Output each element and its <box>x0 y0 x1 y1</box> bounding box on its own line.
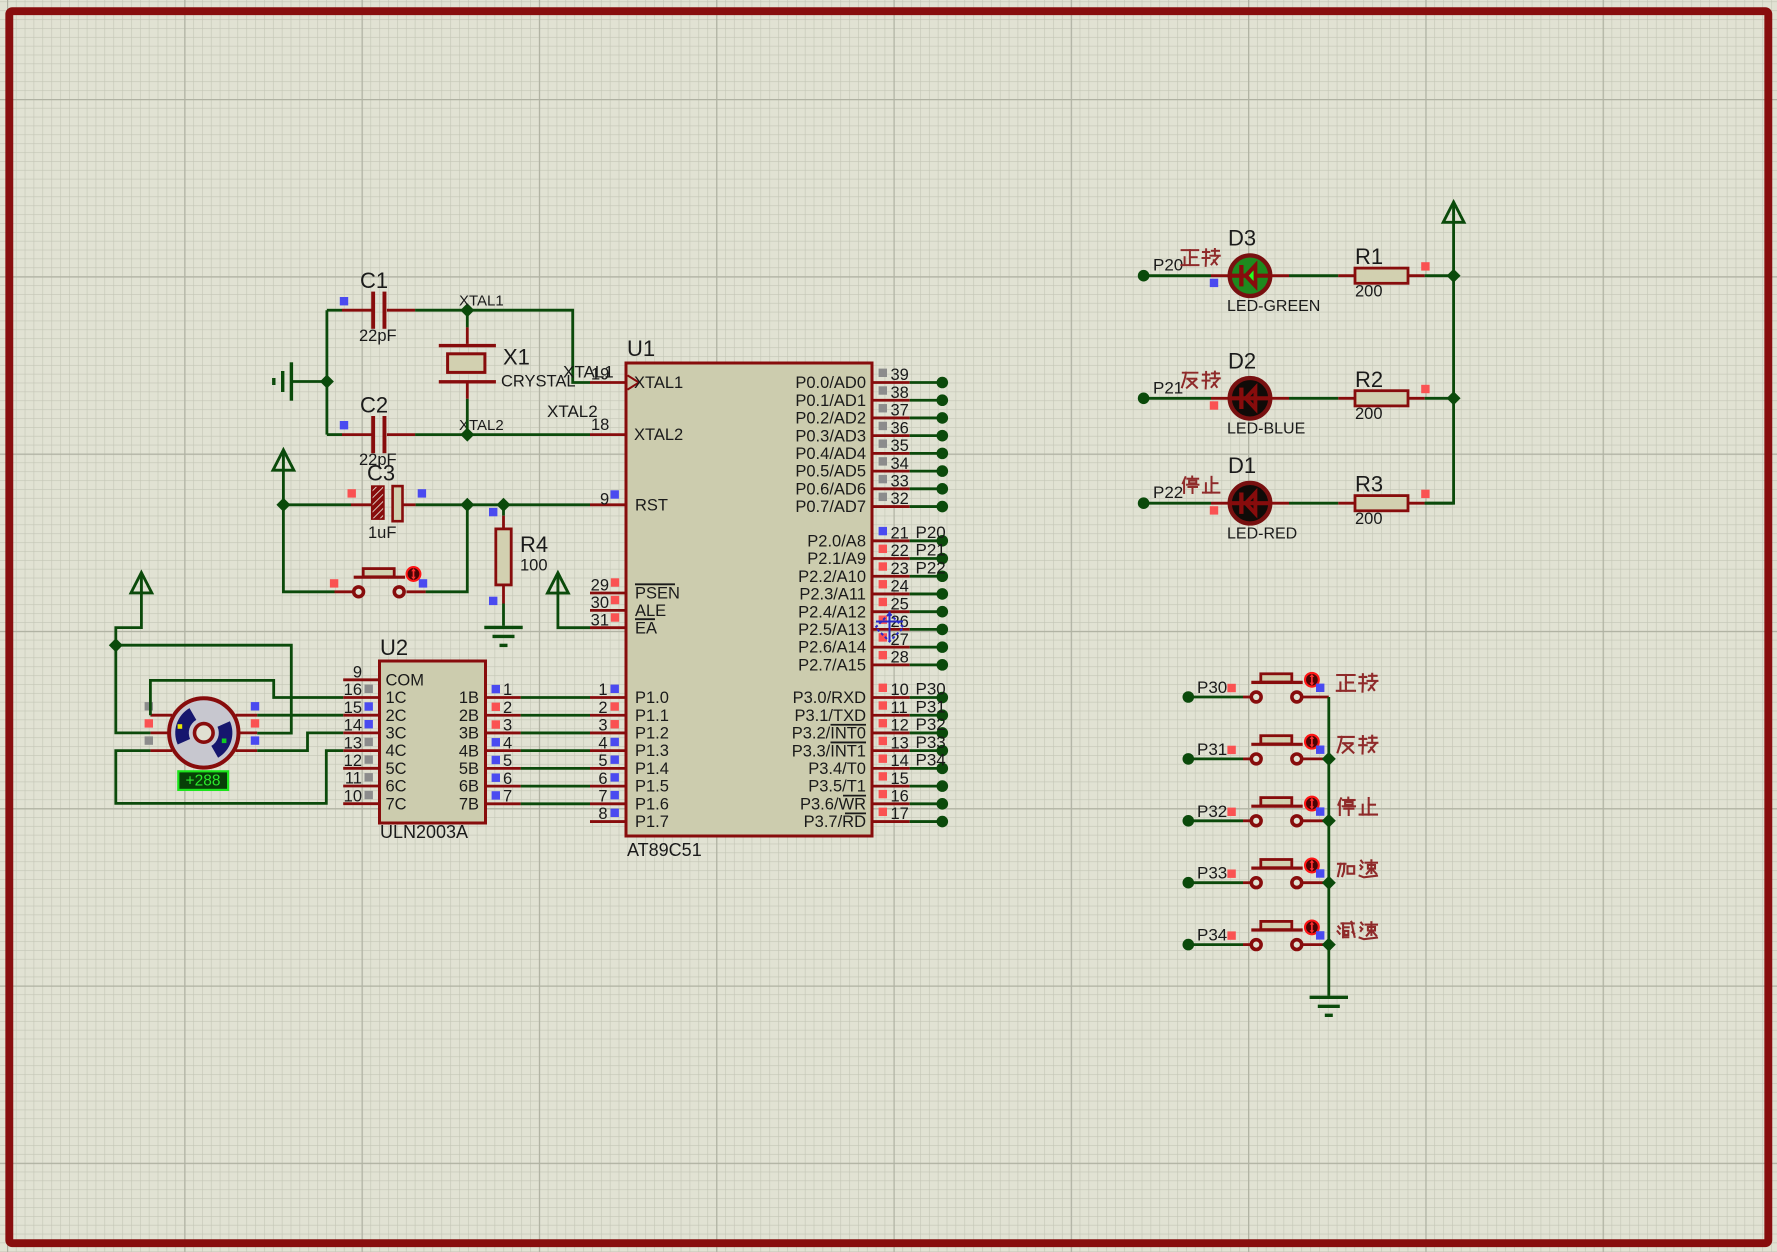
svg-text:P1.2: P1.2 <box>635 725 669 743</box>
wire button branch <box>426 505 468 592</box>
svg-text:3B: 3B <box>459 725 479 743</box>
pin U1 EA stub <box>590 626 626 629</box>
wire XTAL1 node to U1.XTAL1 <box>467 310 590 382</box>
wire button to bus <box>1303 943 1329 946</box>
svg-text:P3.2/INT0: P3.2/INT0 <box>792 725 866 743</box>
svg-text:P2.1/A9: P2.1/A9 <box>807 550 866 568</box>
svg-text:14: 14 <box>891 752 909 770</box>
svg-text:P22: P22 <box>1153 483 1183 502</box>
svg-text:P0.6/AD6: P0.6/AD6 <box>795 480 866 498</box>
power (+5V) motor <box>131 573 152 593</box>
wire to C3 <box>283 503 351 506</box>
svg-text:22pF: 22pF <box>359 327 397 345</box>
capacitor C1 <box>371 292 386 329</box>
ground buttons <box>1310 997 1348 1015</box>
junction LED bus D2 <box>1447 391 1461 405</box>
svg-text:200: 200 <box>1355 510 1383 528</box>
capacitor C2 <box>371 416 386 453</box>
svg-text:39: 39 <box>891 366 909 384</box>
svg-text:P1.5: P1.5 <box>635 778 669 796</box>
svg-text:P20: P20 <box>1153 256 1183 275</box>
op IC U1 AT89C51 body <box>626 363 872 836</box>
svg-text:1: 1 <box>598 681 607 699</box>
svg-text:D3: D3 <box>1228 226 1256 251</box>
svg-text:3: 3 <box>503 717 512 735</box>
interactive toggle <box>1305 673 1319 687</box>
svg-text:P32: P32 <box>916 715 946 734</box>
resistor R1 200 <box>1355 268 1408 283</box>
svg-text:100: 100 <box>520 557 548 575</box>
U1 P1 pin stubs <box>590 696 626 699</box>
svg-text:5C: 5C <box>386 760 407 778</box>
junction bus P31 <box>1322 752 1336 766</box>
resistor R2 200 <box>1355 391 1408 406</box>
svg-text:34: 34 <box>891 455 909 473</box>
wire R3 to bus <box>1425 502 1454 505</box>
svg-text:15: 15 <box>344 699 362 717</box>
svg-text:P32: P32 <box>1197 802 1227 821</box>
svg-text:4C: 4C <box>386 742 407 760</box>
button 停止 (P32) <box>1251 798 1302 826</box>
svg-text:+288: +288 <box>186 773 221 790</box>
wire button to bus <box>1303 881 1329 884</box>
junction ground/vertical <box>320 375 334 389</box>
svg-text:37: 37 <box>891 402 909 420</box>
svg-text:13: 13 <box>344 734 362 752</box>
svg-text:18: 18 <box>591 416 609 434</box>
svg-text:5: 5 <box>598 752 607 770</box>
svg-text:P0.1/AD1: P0.1/AD1 <box>795 392 866 410</box>
svg-text:35: 35 <box>891 437 909 455</box>
svg-text:P0.0/AD0: P0.0/AD0 <box>795 374 866 392</box>
motor state squares <box>145 702 153 710</box>
svg-text:7B: 7B <box>459 795 479 813</box>
svg-text:P0.5/AD5: P0.5/AD5 <box>795 463 866 481</box>
EA overline <box>635 618 655 620</box>
svg-text:16: 16 <box>891 788 909 806</box>
PSEN overline <box>635 583 675 585</box>
crystal X1 <box>439 327 496 398</box>
svg-text:P30: P30 <box>1197 678 1227 697</box>
junction C3/button branch <box>460 498 474 512</box>
pin U1 PSEN stub <box>590 592 626 595</box>
svg-text:XTAL2: XTAL2 <box>459 417 504 434</box>
svg-text:4: 4 <box>598 734 607 752</box>
svg-text:31: 31 <box>591 612 609 630</box>
svg-text:4: 4 <box>503 734 512 752</box>
wire motor coil3 to U2 3C <box>257 733 343 751</box>
svg-text:P2.5/A13: P2.5/A13 <box>798 621 866 639</box>
svg-text:P33: P33 <box>916 733 946 752</box>
R4 state squares <box>489 508 497 516</box>
node XTAL1 <box>460 303 474 317</box>
svg-text:X1: X1 <box>503 345 530 370</box>
svg-text:P21: P21 <box>916 541 946 560</box>
svg-text:1uF: 1uF <box>368 524 396 542</box>
label 停止 <box>1338 798 1377 815</box>
svg-text:27: 27 <box>891 631 909 649</box>
svg-text:5: 5 <box>503 752 512 770</box>
state squares D2 <box>1210 401 1218 409</box>
pin U1 RST stub <box>590 503 626 506</box>
wire D3 to R1 <box>1271 274 1289 277</box>
svg-text:D2: D2 <box>1228 348 1256 373</box>
svg-text:C3: C3 <box>367 461 395 486</box>
svg-text:15: 15 <box>891 770 909 788</box>
svg-text:30: 30 <box>591 594 609 612</box>
U1 right pin names <box>792 374 866 831</box>
capacitor C2 leads <box>342 433 372 436</box>
label 反转 <box>1338 736 1378 754</box>
svg-text:P3.3/INT1: P3.3/INT1 <box>792 742 866 760</box>
svg-text:U1: U1 <box>627 336 655 361</box>
power (+5V) EA <box>548 573 569 593</box>
label 停止 <box>1183 477 1220 494</box>
overlines INT0 INT1 WR RD <box>831 724 867 726</box>
state squares P34 <box>1227 931 1235 939</box>
svg-text:P1.4: P1.4 <box>635 760 669 778</box>
svg-text:11: 11 <box>345 770 362 788</box>
svg-text:P3.5/T1: P3.5/T1 <box>808 778 866 796</box>
cursor crosshair artifact <box>876 612 904 642</box>
ground below R4 <box>484 627 522 645</box>
junction reset left <box>276 498 290 512</box>
state squares P30 <box>1227 684 1235 692</box>
wire motor coil4 to U2 4C <box>116 751 343 804</box>
wire R2 to bus <box>1425 397 1454 400</box>
svg-text:16: 16 <box>344 681 362 699</box>
svg-text:7: 7 <box>598 788 607 806</box>
junction R4 branch <box>497 498 511 512</box>
LED D1 (LED-RED) <box>1229 483 1272 524</box>
ground <box>274 362 292 400</box>
wire D1 to R3 <box>1271 502 1289 505</box>
pin U1 XTAL1 stub <box>590 381 626 384</box>
node P31 terminal <box>1183 753 1195 765</box>
svg-text:P0.3/AD3: P0.3/AD3 <box>795 427 866 445</box>
wire P20 to D3 <box>1144 274 1211 277</box>
svg-text:12: 12 <box>891 717 909 735</box>
svg-text:6: 6 <box>598 770 607 788</box>
wire crystal to XTAL2 node <box>466 399 469 435</box>
svg-text:P20: P20 <box>916 523 946 542</box>
svg-text:XTAL1: XTAL1 <box>634 374 683 392</box>
interactive toggle <box>1305 921 1319 935</box>
svg-text:P34: P34 <box>1197 926 1227 945</box>
node P21 terminal <box>1138 393 1150 405</box>
state squares P33 <box>1227 870 1235 878</box>
motor rotor poles <box>175 708 196 744</box>
pin U1 XTAL2 stub <box>590 433 626 436</box>
C1 state square <box>340 297 348 305</box>
button 减速 (P34) <box>1251 921 1302 949</box>
svg-text:9: 9 <box>600 491 609 509</box>
state squares D1 <box>1210 506 1218 514</box>
wire motor power net <box>116 592 142 645</box>
wire button to bus <box>1303 696 1329 699</box>
svg-text:1: 1 <box>503 681 512 699</box>
wire button to bus <box>1303 819 1329 822</box>
svg-text:R2: R2 <box>1355 367 1383 392</box>
svg-text:AT89C51: AT89C51 <box>627 840 702 860</box>
svg-text:1C: 1C <box>386 689 407 707</box>
label 正转 <box>1337 674 1378 692</box>
U1 right pin numbers and squares <box>879 369 887 377</box>
svg-text:CRYSTAL: CRYSTAL <box>501 373 576 391</box>
capacitor C3 (electrolytic) <box>351 503 372 506</box>
svg-text:PSEN: PSEN <box>635 585 680 603</box>
svg-text:P31: P31 <box>1197 740 1227 759</box>
svg-text:200: 200 <box>1355 283 1383 301</box>
svg-text:28: 28 <box>891 649 909 667</box>
wire motor coil2 to U2 2C <box>257 714 343 717</box>
svg-text:P1.6: P1.6 <box>635 795 669 813</box>
wire C1 to XTAL1 node <box>415 309 467 312</box>
svg-text:7C: 7C <box>386 795 407 813</box>
svg-text:C2: C2 <box>360 393 388 418</box>
svg-text:2C: 2C <box>386 707 407 725</box>
svg-text:P2.4/A12: P2.4/A12 <box>798 603 866 621</box>
U1 right pin stubs and wires <box>872 381 910 384</box>
wire power to motor common right <box>116 645 291 733</box>
interactive toggle <box>1305 859 1319 873</box>
junction LED bus D3 <box>1447 269 1461 283</box>
svg-text:P2.0/A8: P2.0/A8 <box>807 532 866 550</box>
svg-text:2: 2 <box>598 699 607 717</box>
label 反转 <box>1182 372 1220 389</box>
wire P33 to button <box>1188 881 1243 884</box>
wire C3 to RST pin <box>416 503 590 506</box>
svg-text:P2.7/A15: P2.7/A15 <box>798 656 866 674</box>
wire P22 to D1 <box>1144 502 1211 505</box>
svg-text:EA: EA <box>635 619 657 637</box>
wire R1 to bus <box>1425 274 1454 277</box>
node XTAL2 <box>460 428 474 442</box>
svg-text:8: 8 <box>598 805 607 823</box>
reset button state squares <box>330 579 338 587</box>
junction motor power <box>109 638 123 652</box>
node P20 terminal <box>1138 270 1150 282</box>
resistor R4 <box>502 505 505 516</box>
svg-text:C1: C1 <box>360 268 388 293</box>
wire P21 to D2 <box>1144 397 1211 400</box>
junction bus P33 <box>1322 876 1336 890</box>
wire D2 to R2 <box>1271 397 1289 400</box>
wire P34 to button <box>1188 943 1243 946</box>
wire P30 to button <box>1188 696 1243 699</box>
U2 left pin stubs <box>343 678 379 681</box>
motor rpm readout +288 <box>178 771 228 790</box>
svg-text:4B: 4B <box>459 742 479 760</box>
interactive toggle <box>1305 797 1319 811</box>
svg-text:32: 32 <box>891 490 909 508</box>
svg-text:P30: P30 <box>916 680 946 699</box>
svg-text:P0.7/AD7: P0.7/AD7 <box>795 498 866 516</box>
svg-text:3C: 3C <box>386 725 407 743</box>
svg-text:14: 14 <box>344 717 362 735</box>
node P30 terminal <box>1183 691 1195 703</box>
wire ground spur <box>293 380 327 383</box>
wire reset button left <box>283 505 334 592</box>
wire power to EA <box>558 592 590 628</box>
svg-text:XTAL1: XTAL1 <box>459 293 504 310</box>
svg-text:P22: P22 <box>916 558 946 577</box>
svg-text:P0.2/AD2: P0.2/AD2 <box>795 410 866 428</box>
svg-text:24: 24 <box>891 578 909 596</box>
svg-text:13: 13 <box>891 734 909 752</box>
svg-text:6: 6 <box>503 770 512 788</box>
wire button bus <box>1327 697 1330 996</box>
svg-text:11: 11 <box>891 699 908 717</box>
svg-text:R4: R4 <box>520 532 548 557</box>
button 加速 (P33) <box>1251 860 1302 888</box>
wire C1 left <box>327 309 342 312</box>
op IC U2 ULN2003A body <box>380 661 486 823</box>
svg-text:R3: R3 <box>1355 472 1383 497</box>
capacitor C1 leads <box>342 309 372 312</box>
svg-text:19: 19 <box>591 366 609 384</box>
svg-text:23: 23 <box>891 560 909 578</box>
motor stepper body <box>169 698 238 767</box>
junction bus P34 <box>1322 938 1336 952</box>
node P32 terminal <box>1183 815 1195 827</box>
C2 state square <box>340 421 348 429</box>
label 加速 <box>1338 860 1377 877</box>
svg-text:36: 36 <box>891 419 909 437</box>
svg-text:38: 38 <box>891 384 909 402</box>
svg-text:10: 10 <box>344 787 362 805</box>
state squares D3 <box>1210 279 1218 287</box>
svg-text:P1.1: P1.1 <box>635 707 669 725</box>
svg-text:22: 22 <box>891 542 909 560</box>
wire XTAL2 node to U1.XTAL2 <box>467 433 590 436</box>
svg-text:2: 2 <box>503 699 512 717</box>
svg-text:P31: P31 <box>916 697 946 716</box>
label 正转 <box>1181 249 1220 266</box>
svg-text:6B: 6B <box>459 778 479 796</box>
svg-text:5B: 5B <box>459 760 479 778</box>
svg-text:6C: 6C <box>386 778 407 796</box>
svg-text:RST: RST <box>635 496 668 514</box>
svg-text:P1.0: P1.0 <box>635 689 669 707</box>
svg-text:ULN2003A: ULN2003A <box>380 822 468 842</box>
U2 left pin names <box>386 671 425 813</box>
interactive toggle <box>1305 735 1319 749</box>
wire power to motor common left <box>116 645 151 733</box>
wires U2 1B-7B to U1 P1.0-P1.6 <box>521 696 590 699</box>
svg-text:29: 29 <box>591 577 609 595</box>
svg-text:33: 33 <box>891 473 909 491</box>
svg-text:COM: COM <box>386 671 425 689</box>
label 减速 <box>1338 922 1377 939</box>
svg-text:LED-GREEN: LED-GREEN <box>1227 298 1320 315</box>
svg-text:P1.7: P1.7 <box>635 813 669 831</box>
state squares P31 <box>1227 746 1235 754</box>
LED D3 (LED-GREEN) <box>1229 255 1272 296</box>
U1 left pin names <box>634 374 683 831</box>
svg-text:200: 200 <box>1355 405 1383 423</box>
svg-text:LED-BLUE: LED-BLUE <box>1227 421 1305 438</box>
wire motor coil1 to U2 1C <box>150 680 343 715</box>
svg-text:P2.6/A14: P2.6/A14 <box>798 639 866 657</box>
svg-text:12: 12 <box>344 752 362 770</box>
button 正转 (P30) <box>1251 674 1302 702</box>
button 反转 (P31) <box>1251 736 1302 764</box>
C3 state squares <box>348 489 356 497</box>
svg-text:P2.3/A11: P2.3/A11 <box>799 586 866 604</box>
svg-text:P21: P21 <box>1153 378 1183 397</box>
svg-text:ALE: ALE <box>635 602 666 620</box>
power (+5V) LEDs <box>1443 202 1464 222</box>
svg-text:P3.4/T0: P3.4/T0 <box>808 760 866 778</box>
power (+5V) reset <box>273 450 294 470</box>
svg-text:P3.6/WR: P3.6/WR <box>800 795 866 813</box>
svg-text:D1: D1 <box>1228 453 1256 478</box>
wire P32 to button <box>1188 819 1243 822</box>
svg-text:P0.4/AD4: P0.4/AD4 <box>795 445 866 463</box>
motor stepper pins <box>150 714 172 717</box>
svg-text:R1: R1 <box>1355 244 1383 269</box>
U1 clock input mark <box>628 375 640 389</box>
svg-text:7: 7 <box>503 788 512 806</box>
svg-text:P1.3: P1.3 <box>635 742 669 760</box>
node P34 terminal <box>1183 939 1195 951</box>
wire C2 left <box>327 433 342 436</box>
wire button to bus <box>1303 758 1329 761</box>
svg-text:2B: 2B <box>459 707 479 725</box>
state squares P32 <box>1227 808 1235 816</box>
LED D2 (LED-BLUE) <box>1229 378 1272 419</box>
svg-text:U2: U2 <box>380 635 408 660</box>
U2 right pin stubs numbers squares names <box>486 696 521 699</box>
svg-text:25: 25 <box>891 595 909 613</box>
node P22 terminal <box>1138 497 1150 509</box>
svg-text:17: 17 <box>891 805 909 823</box>
svg-text:XTAL2: XTAL2 <box>634 426 683 444</box>
svg-text:P3.1/TXD: P3.1/TXD <box>794 707 866 725</box>
svg-text:LED-RED: LED-RED <box>1227 526 1297 543</box>
svg-text:P3.7/RD: P3.7/RD <box>804 813 866 831</box>
svg-text:P2.2/A10: P2.2/A10 <box>798 568 866 586</box>
svg-text:P33: P33 <box>1197 864 1227 883</box>
wire P31 to button <box>1188 758 1243 761</box>
wire XTAL1 node down to crystal <box>466 310 469 327</box>
svg-text:1B: 1B <box>459 689 479 707</box>
reset button toggle icon <box>407 567 421 581</box>
U1 right terminal dots <box>937 377 949 389</box>
pin U1 ALE stub <box>590 609 626 612</box>
svg-text:P3.0/RXD: P3.0/RXD <box>793 689 866 707</box>
svg-text:21: 21 <box>891 525 909 543</box>
pin 9 state square <box>611 490 619 498</box>
svg-text:P34: P34 <box>916 751 946 770</box>
junction bus P32 <box>1322 814 1336 828</box>
node P33 terminal <box>1183 877 1195 889</box>
resistor R3 200 <box>1355 496 1408 511</box>
wire LED bus <box>1425 222 1454 504</box>
svg-text:3: 3 <box>598 717 607 735</box>
wire C1-C2 left vertical <box>325 310 328 434</box>
svg-text:10: 10 <box>891 681 909 699</box>
wire C2 to XTAL2 node <box>415 433 467 436</box>
svg-text:9: 9 <box>353 664 362 682</box>
button reset <box>354 569 405 597</box>
